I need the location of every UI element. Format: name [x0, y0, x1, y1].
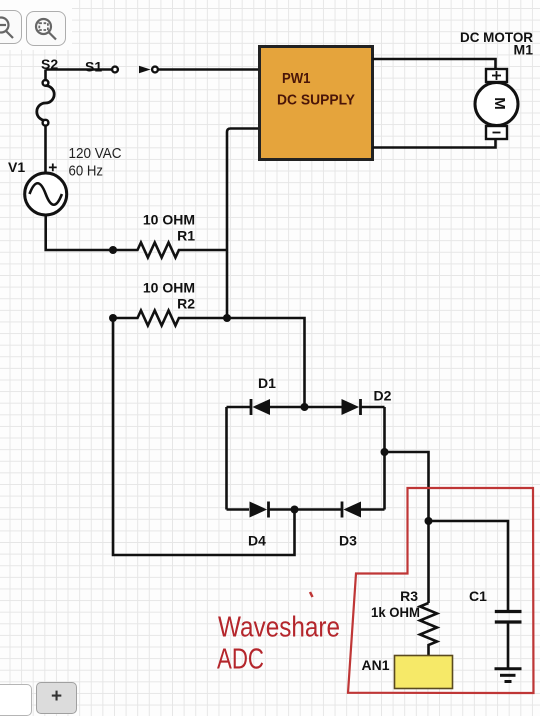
motor M1	[475, 69, 518, 139]
svg-text:R3: R3	[400, 588, 418, 604]
wire S1 to PW1	[158, 68, 260, 71]
wire motor bottom to PW1	[373, 137, 496, 148]
wire PW1 left output down to R2	[227, 129, 260, 319]
power supply PW1	[260, 47, 373, 160]
svg-text:60 Hz: 60 Hz	[69, 163, 104, 180]
node bridge bottom junction	[291, 506, 299, 514]
resistor R2	[113, 311, 227, 326]
node ADC top junction	[425, 517, 433, 525]
svg-text:D3: D3	[339, 533, 357, 549]
bridge bottom wire	[227, 508, 385, 511]
bottom add button	[36, 682, 77, 714]
svg-text:R2: R2	[177, 296, 195, 312]
wire left branch down to bridge bottom	[113, 318, 295, 555]
bridge left wire	[225, 407, 228, 510]
svg-text:DC SUPPLY: DC SUPPLY	[277, 93, 355, 109]
resistor R1	[113, 243, 227, 258]
node bridge top junction	[301, 403, 309, 411]
wire V1 to node A	[46, 215, 111, 250]
svg-text:10 OHM: 10 OHM	[143, 212, 195, 228]
wire PW1 to motor top	[373, 59, 496, 69]
AC source V1	[25, 164, 67, 216]
svg-text:S2: S2	[41, 56, 58, 72]
diode D4	[250, 502, 269, 518]
svg-text:S1: S1	[85, 59, 102, 75]
svg-text:D4: D4	[248, 533, 266, 549]
Waveshare ADC boundary	[348, 488, 534, 693]
svg-text:Waveshare: Waveshare	[218, 612, 340, 644]
zoom-fit button icon	[36, 19, 56, 40]
diode D3	[342, 502, 361, 518]
svg-text:ADC: ADC	[217, 644, 264, 676]
diode D2	[342, 399, 361, 415]
ground	[495, 669, 522, 682]
svg-text:10 OHM: 10 OHM	[143, 280, 195, 296]
stray red tick	[310, 592, 313, 597]
diode D1	[251, 399, 270, 415]
svg-text:R1: R1	[177, 228, 195, 244]
zoom-out button icon	[0, 18, 13, 39]
svg-text:C1: C1	[469, 588, 487, 604]
node bridge right junction	[381, 448, 389, 456]
node C junction at R2 right	[223, 314, 231, 322]
bridge top wire	[227, 406, 385, 409]
wire S2 to V1	[44, 125, 47, 173]
wire node down to R3	[427, 521, 430, 603]
svg-text:D1: D1	[258, 375, 276, 391]
resistor R3	[420, 603, 437, 656]
svg-text:PW1: PW1	[282, 71, 311, 87]
svg-text:1k OHM: 1k OHM	[371, 604, 420, 620]
capacitor C1	[495, 612, 522, 669]
wire top from S2 corner to S1	[46, 68, 113, 71]
svg-text:V1: V1	[8, 159, 25, 175]
node A junction	[109, 246, 117, 254]
bottom white button	[0, 684, 32, 716]
zoom-fit button	[26, 11, 66, 46]
zoom-out button	[0, 10, 22, 44]
switch S2	[37, 70, 54, 126]
switch S1	[112, 66, 158, 73]
svg-text:M1: M1	[514, 42, 534, 58]
wire node to C1	[429, 521, 509, 611]
node B junction at R2 left	[109, 314, 117, 322]
wire bridge to ADC node	[385, 452, 429, 521]
svg-text:120 VAC: 120 VAC	[69, 145, 122, 162]
ADC input AN1	[395, 656, 453, 689]
bridge right wire	[383, 407, 386, 510]
svg-text:D2: D2	[374, 388, 392, 404]
svg-text:AN1: AN1	[362, 657, 390, 673]
svg-text:M: M	[491, 97, 508, 110]
wire node C to bridge top	[227, 318, 305, 407]
